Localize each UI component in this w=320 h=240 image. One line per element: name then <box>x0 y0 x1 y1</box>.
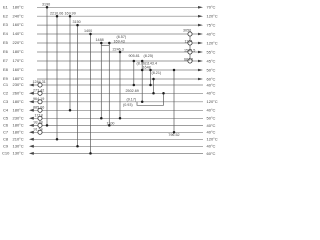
svg-text:C10: C10 <box>2 151 10 156</box>
svg-text:2502.69: 2502.69 <box>126 89 139 93</box>
arrowhead hot E6 <box>198 51 203 54</box>
svg-text:E8: E8 <box>3 67 9 72</box>
svg-text:964.19: 964.19 <box>33 97 44 101</box>
cooler ring E5 <box>188 41 192 45</box>
cold stream C9 line <box>32 145 203 147</box>
svg-text:169.99: 169.99 <box>65 11 76 15</box>
svg-text:C2: C2 <box>3 90 9 95</box>
arrowhead hot E5 <box>198 42 203 45</box>
split bar under E5 <box>101 44 109 46</box>
arrowhead hot E1 <box>198 6 203 9</box>
match line 6 (E5-C5) <box>100 43 102 118</box>
cooler column line (E4-E7) <box>189 34 191 61</box>
match line 2 (E2-C8) <box>56 16 58 139</box>
junction dot (90.5,34.0) <box>89 33 92 36</box>
svg-text:C3: C3 <box>3 99 9 104</box>
arrowhead cold C3 <box>29 100 34 103</box>
match line 1 (E1-C6) <box>46 7 48 125</box>
svg-text:E6: E6 <box>3 49 9 54</box>
svg-text:160°C: 160°C <box>13 22 24 27</box>
svg-text:2246.3: 2246.3 <box>113 48 124 52</box>
svg-text:140°C: 140°C <box>13 31 24 36</box>
arrowhead cold C6 <box>29 124 34 127</box>
svg-text:E1: E1 <box>3 4 9 9</box>
svg-text:120°C: 120°C <box>207 99 218 104</box>
svg-text:1503.5: 1503.5 <box>184 48 195 52</box>
junction dot (150.5,70.0) <box>149 69 152 72</box>
junction dot (153.5,93.3) <box>152 92 155 95</box>
cold stream C7 line <box>32 131 203 133</box>
junction dot (174,132.3) <box>173 131 176 134</box>
arrowhead cold C10 <box>29 152 34 155</box>
arrowhead hot E8 <box>198 69 203 72</box>
junction dot (47,7.3) <box>46 6 49 9</box>
arrowhead hot E2 <box>198 15 203 18</box>
arrowhead hot E9 <box>198 78 203 81</box>
arrowhead cold C2 <box>29 92 34 95</box>
match line 12 (E9-C2) <box>153 79 155 93</box>
svg-text:130°C: 130°C <box>13 143 24 148</box>
match line 10 (E7-C3) <box>141 61 143 102</box>
junction dot (133.8,61.0) <box>133 60 136 63</box>
heater ring C2 <box>38 91 42 95</box>
hot stream E8 line <box>37 69 200 71</box>
hot stream E7 line <box>37 60 200 62</box>
hot stream E2 line <box>37 15 200 17</box>
svg-text:70°C: 70°C <box>207 5 216 10</box>
svg-text:260°C: 260°C <box>13 90 24 95</box>
cold stream C2 line <box>32 92 203 94</box>
junction dot (120,118.3) <box>119 117 122 120</box>
svg-text:120°C: 120°C <box>207 40 218 45</box>
arrowhead hot E4 <box>198 33 203 36</box>
junction dot (109.3,43.0) <box>108 42 111 45</box>
svg-text:50°C: 50°C <box>207 67 216 72</box>
svg-text:3190: 3190 <box>42 3 50 7</box>
arrowhead cold C7 <box>29 131 34 134</box>
junction dot (77.5,146.3) <box>76 145 79 148</box>
cold stream C5 line <box>32 117 203 119</box>
match line 4 (E3-C9) <box>77 25 79 146</box>
svg-text:180°C: 180°C <box>13 4 24 9</box>
svg-text:905.81: 905.81 <box>129 54 140 58</box>
heater ring C3 <box>38 100 42 104</box>
match line 13 (E8-C7) <box>173 70 175 132</box>
svg-text:2210.06: 2210.06 <box>50 11 63 15</box>
arrowhead hot E7 <box>198 60 203 63</box>
hot stream E4 line <box>37 33 200 35</box>
junction dot (57,16.2) <box>56 15 59 18</box>
junction dot (90.5,153.4) <box>89 152 92 155</box>
junction dot (174,70.0) <box>173 69 176 72</box>
svg-text:40°C: 40°C <box>207 130 216 135</box>
svg-text:93.48: 93.48 <box>34 121 43 125</box>
svg-text:40°C: 40°C <box>207 31 216 36</box>
svg-text:180°C: 180°C <box>13 49 24 54</box>
svg-text:40°C: 40°C <box>207 144 216 149</box>
arrowhead cold C9 <box>29 145 34 148</box>
svg-text:180°C: 180°C <box>13 129 24 134</box>
junction dot (120,52.0) <box>119 51 122 54</box>
svg-text:230°C: 230°C <box>13 115 24 120</box>
match line 3 (E2-C4) <box>69 16 71 110</box>
junction dot (142.2,101.8) <box>141 101 144 104</box>
svg-text:(8.25): (8.25) <box>144 54 154 58</box>
heater ring C4 <box>38 108 42 112</box>
svg-text:91.54: 91.54 <box>34 128 43 132</box>
svg-text:E2: E2 <box>3 13 9 18</box>
svg-text:50°C: 50°C <box>207 116 216 121</box>
hot stream E1 line <box>37 6 200 8</box>
svg-text:60°C: 60°C <box>207 151 216 156</box>
cold stream C10 line <box>32 152 203 154</box>
svg-text:E4: E4 <box>3 31 9 36</box>
svg-text:3150: 3150 <box>73 20 81 24</box>
arrowhead cold C1 <box>29 84 34 87</box>
svg-text:C4: C4 <box>3 107 9 112</box>
svg-text:(8.21): (8.21) <box>152 71 162 75</box>
junction dot (70,16.2) <box>69 15 72 18</box>
svg-text:273.42: 273.42 <box>33 89 44 93</box>
svg-text:230°C: 230°C <box>13 82 24 87</box>
svg-text:130°C: 130°C <box>13 151 24 156</box>
arrowhead cold C4 <box>29 109 34 112</box>
arrowhead cold C8 <box>29 138 34 141</box>
hot stream E5 line <box>37 42 200 44</box>
match line 7 (E5-C6) <box>108 43 110 125</box>
junction dot (142.2,61.0) <box>141 60 144 63</box>
svg-text:75°C: 75°C <box>207 23 216 28</box>
svg-text:E5: E5 <box>3 40 9 45</box>
svg-text:40°C: 40°C <box>207 91 216 96</box>
match line 11 (E8-C1) <box>150 70 152 85</box>
heater ring C6 <box>38 123 42 127</box>
cold stream C4 line <box>32 109 203 111</box>
svg-text:169.43: 169.43 <box>114 39 125 43</box>
svg-text:C5: C5 <box>3 115 9 120</box>
svg-text:240°C: 240°C <box>13 13 24 18</box>
svg-text:55°C: 55°C <box>207 49 216 54</box>
svg-text:180°C: 180°C <box>13 107 24 112</box>
cold stream C1 line <box>32 84 203 86</box>
svg-text:(0.93): (0.93) <box>123 103 133 107</box>
heater ring C5 <box>38 116 42 120</box>
hot stream E3 line <box>37 24 200 26</box>
svg-text:1100: 1100 <box>107 122 115 126</box>
cooler ring E6 <box>188 50 192 54</box>
arrowhead hot E3 <box>198 24 203 27</box>
cooler ring E7 <box>188 59 192 63</box>
svg-text:3050: 3050 <box>183 28 191 32</box>
junction dot (133.8,85.0) <box>133 84 136 87</box>
junction dot (163.5,93.3) <box>162 92 165 95</box>
svg-text:681.5: 681.5 <box>184 57 193 61</box>
cold stream C6 line <box>32 124 203 126</box>
hot stream E9 line <box>37 78 200 80</box>
bracket connector (C3-C2) <box>137 93 164 105</box>
svg-text:E7: E7 <box>3 58 9 63</box>
junction dot (57,139.3) <box>56 138 59 141</box>
svg-text:180°C: 180°C <box>13 99 24 104</box>
junction dot (47,125.4) <box>46 124 49 127</box>
svg-text:E9: E9 <box>3 76 9 81</box>
cold stream C8 line <box>32 138 203 140</box>
svg-text:120°C: 120°C <box>207 14 218 19</box>
junction dot (150.5,85.0) <box>149 84 152 87</box>
svg-text:C7: C7 <box>3 129 9 134</box>
heater ring C1 <box>38 83 42 87</box>
svg-text:40°C: 40°C <box>207 108 216 113</box>
svg-text:45°C: 45°C <box>207 58 216 63</box>
svg-text:1488: 1488 <box>96 38 104 42</box>
svg-text:1154: 1154 <box>185 39 193 43</box>
cooler ring E4 <box>188 32 192 36</box>
heater ring C7 <box>38 130 42 134</box>
svg-text:210°C: 210°C <box>13 136 24 141</box>
junction dot (142.2,70.0) <box>141 69 144 72</box>
svg-text:C9: C9 <box>3 143 9 148</box>
svg-text:1718: 1718 <box>35 113 43 117</box>
svg-text:1284.31: 1284.31 <box>33 80 46 84</box>
junction dot (153.5,79.0) <box>152 78 155 81</box>
junction dot (77.5,25.1) <box>76 24 79 27</box>
svg-text:885.06: 885.06 <box>33 106 44 110</box>
junction dot (101.3,43.0) <box>100 42 103 45</box>
svg-text:40°C: 40°C <box>207 82 216 87</box>
svg-text:220°C: 220°C <box>13 40 24 45</box>
svg-text:120°C: 120°C <box>207 137 218 142</box>
svg-text:E3: E3 <box>3 22 9 27</box>
svg-text:160°C: 160°C <box>13 67 24 72</box>
cold stream C3 line <box>32 101 203 103</box>
svg-text:170°C: 170°C <box>13 58 24 63</box>
match line 9 (E7-C1) <box>133 61 135 85</box>
svg-text:40°C: 40°C <box>207 123 216 128</box>
hot stream E6 line <box>37 51 200 53</box>
svg-text:1648: 1648 <box>143 66 151 70</box>
svg-text:C8: C8 <box>3 136 9 141</box>
match line 5 (E4-C10) <box>90 34 92 153</box>
svg-text:60°C: 60°C <box>207 76 216 81</box>
svg-text:C1: C1 <box>3 82 9 87</box>
svg-text:180°C: 180°C <box>13 76 24 81</box>
junction dot (101.3,118.3) <box>100 117 103 120</box>
svg-text:796.52: 796.52 <box>168 133 179 137</box>
svg-text:180°C: 180°C <box>13 123 24 128</box>
svg-text:C6: C6 <box>3 123 9 128</box>
junction dot (70,110.3) <box>69 109 72 112</box>
match line 8 (E6-C5) <box>119 52 121 118</box>
svg-text:(9.17): (9.17) <box>127 97 137 101</box>
svg-text:1400: 1400 <box>84 29 92 33</box>
junction dot (109.3,125.4) <box>108 124 111 127</box>
arrowhead cold C5 <box>29 117 34 120</box>
